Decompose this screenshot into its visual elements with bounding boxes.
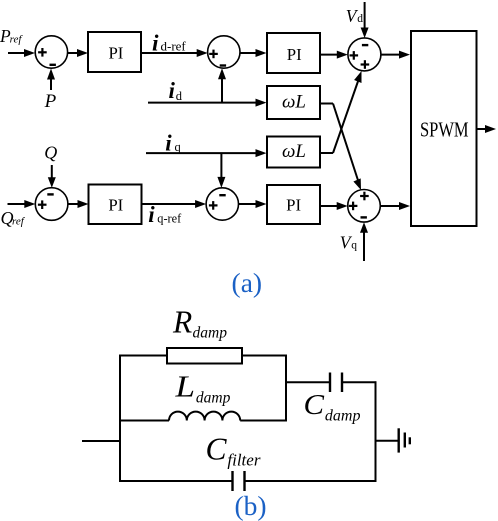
block PI4 text [286,195,301,214]
summing junction S1 [35,36,67,68]
node Cfilter label [206,430,261,469]
wire Qref input arrow [8,200,36,208]
summing junction S4 [35,188,68,221]
S6 plus sign top [360,192,369,201]
wire id line to wL1 [148,99,267,107]
wire PI4 to S6 [320,202,348,210]
node Vq label [340,232,358,252]
summing junction S2 [208,36,240,68]
summing junction S5 [206,188,238,220]
block wL1 text [282,92,306,113]
wire S4 to PI3 [68,200,89,208]
wire Vq input arrow up [360,222,368,261]
block wL2 [267,137,320,168]
summing junction S3 [348,38,381,71]
node id label [169,78,183,103]
svg-text:PI: PI [108,44,123,63]
wire P feedback arrow [47,69,55,91]
node P label [44,91,57,112]
svg-text:ωL: ωL [282,141,306,162]
node Vd label [346,6,364,26]
wire bottom rail left [119,480,232,482]
node id-ref label [152,31,186,57]
wire bottom rail right [245,480,377,482]
wire left input stub [82,440,120,442]
block PI1 [88,32,141,72]
S1 plus sign [38,48,47,57]
node Pref label [0,26,23,46]
S2 minus sign [220,64,226,66]
wire S6 to SPWM [380,202,410,210]
svg-text:damp: damp [196,390,231,407]
summing junction S6 [348,190,381,223]
svg-text:(b): (b) [234,490,266,521]
wire wL2 output stub [320,152,333,154]
svg-text:i: i [148,202,155,227]
node iq label [165,130,181,155]
wire Vd input arrow [361,2,369,38]
S3 plus sign bottom [361,60,370,69]
svg-text:i: i [152,31,159,57]
wire PI3 to S5 [142,200,207,208]
capacitor Cdamp [330,373,342,393]
S2 plus sign [209,50,218,59]
node Qref label [1,208,26,228]
wire iq line to wL2 [146,149,267,157]
svg-text:C: C [206,430,228,466]
svg-text:d-ref: d-ref [161,39,187,54]
svg-text:d: d [357,13,363,25]
svg-text:i: i [169,78,176,103]
wire wL1 cross arrow to S6 [333,104,361,191]
svg-text:C: C [304,390,326,421]
wire top rail right [242,355,287,357]
wire S1 to PI1 [68,49,89,57]
svg-text:PI: PI [286,195,301,214]
S6 minus sign bottom [361,216,367,218]
svg-text:q: q [351,239,357,251]
wire left vertical bus [119,355,121,482]
S3 plus sign left [350,51,359,60]
svg-text:filter: filter [227,451,260,470]
block SPWM [411,31,477,226]
svg-text:i: i [165,130,172,155]
wire PI2 to S3 [320,51,348,59]
wire PI1 to S2 [141,49,208,57]
block PI3 [89,185,142,225]
wire right vertical join [285,355,287,422]
inductor Ldamp [169,412,240,421]
svg-text:R: R [172,305,192,340]
wire id branch up to S2 [218,68,226,102]
wire ground stub [376,440,399,442]
node Rdamp label [172,305,227,342]
S1 minus sign [50,64,56,66]
resistor Rdamp [167,348,242,364]
wire wL2 cross arrow to S3 [333,71,362,153]
block PI3 text [108,196,123,215]
wire S2 to PI2 [240,49,267,57]
S4 minus sign top [47,193,53,195]
wire to Cdamp [286,381,330,383]
ground [399,428,410,452]
node Q label [44,143,57,163]
svg-text:SPWM: SPWM [420,119,469,142]
S6 plus sign left [349,202,358,211]
wire iq branch down to S5 [217,153,225,188]
svg-text:ref: ref [12,216,26,228]
S5 plus sign left [209,201,218,210]
wire S5 to PI4 [239,200,267,208]
svg-text:L: L [174,369,195,404]
block PI2 text [287,45,302,64]
svg-text:ωL: ωL [282,92,306,113]
wire wL1 output stub [320,103,333,105]
block wL2 text [282,141,306,162]
block PI4 [267,185,320,224]
S3 minus sign top [362,44,368,46]
wire S3 to SPWM [381,51,410,59]
S5 minus sign top [219,194,225,196]
S4 plus sign left [38,200,47,209]
wire Cdamp to right bus [342,381,376,383]
wire right vertical bus [375,381,377,482]
block PI2 [267,33,320,73]
svg-text:Q: Q [44,143,57,163]
node Cdamp label [304,390,361,425]
svg-text:(a): (a) [232,267,263,298]
svg-text:q: q [175,140,182,154]
capacitor Cfilter [233,471,245,491]
svg-text:ref: ref [10,34,24,46]
block PI1 text [108,44,123,63]
block SPWM text [420,119,469,142]
node Ldamp label [174,369,230,407]
wire middle rail left [119,420,169,422]
wire middle rail right [240,420,287,422]
svg-text:damp: damp [193,325,228,342]
wire SPWM output arrow [477,125,497,133]
wire top rail left [119,355,167,357]
svg-text:PI: PI [287,45,302,64]
svg-text:PI: PI [108,196,123,215]
label (b) [234,490,266,521]
svg-text:q-ref: q-ref [157,211,182,225]
svg-text:damp: damp [325,408,361,425]
wire Pref input arrow [8,49,35,57]
node iq-ref label [148,202,182,227]
svg-text:P: P [44,91,57,112]
block wL1 [267,86,320,119]
label (a) [232,267,263,298]
svg-text:d: d [176,89,183,103]
wire Q input arrow down [48,165,56,188]
